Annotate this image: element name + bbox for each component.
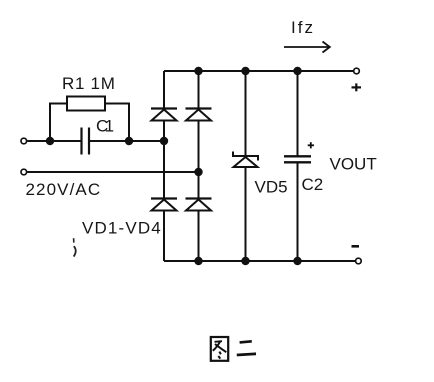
wire: bottom AC line	[27, 171, 198, 173]
node: junction right of C1	[125, 137, 133, 145]
diode VD3	[151, 199, 177, 211]
wire: zener branch vertical	[245, 71, 247, 261]
wire: top positive rail	[164, 70, 354, 72]
output polarity plus	[352, 83, 362, 91]
svg-text:R1 1M: R1 1M	[62, 74, 116, 93]
label C1	[96, 117, 114, 136]
node: C2 branch bottom	[293, 257, 301, 265]
resistor R1	[67, 97, 105, 111]
diode VD1	[151, 109, 177, 121]
wire: C2 branch vertical	[297, 71, 299, 261]
stray mark parenthesis	[74, 238, 76, 256]
capacitor C2	[284, 156, 311, 162]
node: C2 branch top	[293, 67, 301, 75]
label VD1-VD4	[82, 219, 162, 238]
zener diode VD5	[233, 152, 258, 168]
svg-text:VD1-VD4: VD1-VD4	[82, 219, 162, 238]
svg-text:VD5: VD5	[255, 178, 288, 197]
wire: bridge branch 1 vertical	[163, 71, 165, 261]
wire: bridge branch 2 vertical	[198, 71, 200, 261]
label Ifz	[291, 18, 315, 37]
current arrow Ifz	[284, 42, 330, 53]
label R1 1M	[62, 74, 116, 93]
node: AC joins branch 2	[194, 168, 202, 176]
svg-text:VOUT: VOUT	[330, 155, 377, 174]
wire: top AC line right of C1	[90, 140, 164, 142]
output polarity minus	[352, 245, 360, 248]
label VOUT	[330, 155, 377, 174]
label 220V/AC	[26, 180, 102, 199]
node: junction left of C1	[46, 137, 54, 145]
node: AC joins branch 1	[160, 137, 168, 145]
capacitor C1	[82, 128, 90, 155]
wire: R1 left lead	[50, 104, 67, 142]
output terminal positive	[354, 68, 360, 74]
diode VD2	[186, 109, 212, 121]
node: branch 2 top	[194, 67, 202, 75]
label C2	[302, 175, 324, 194]
label VD5	[255, 178, 288, 197]
caption figure 2 character tu	[211, 337, 228, 361]
wire: top AC line left of C1	[27, 140, 80, 142]
node: branch 2 bottom	[194, 257, 202, 265]
diode VD4	[186, 199, 212, 211]
svg-text:C2: C2	[302, 175, 324, 194]
node: zener branch top	[241, 67, 249, 75]
node: zener branch bottom	[241, 257, 249, 265]
C2 polarity plus	[308, 142, 314, 148]
input terminal top	[21, 138, 27, 144]
caption figure 2 character er	[237, 341, 256, 355]
output terminal negative	[356, 258, 362, 264]
wire: bottom negative rail	[164, 260, 356, 262]
input terminal bottom	[21, 169, 27, 175]
svg-text:Ifz: Ifz	[291, 18, 315, 37]
svg-text:220V/AC: 220V/AC	[26, 180, 102, 199]
wire: R1 right lead	[105, 104, 129, 142]
